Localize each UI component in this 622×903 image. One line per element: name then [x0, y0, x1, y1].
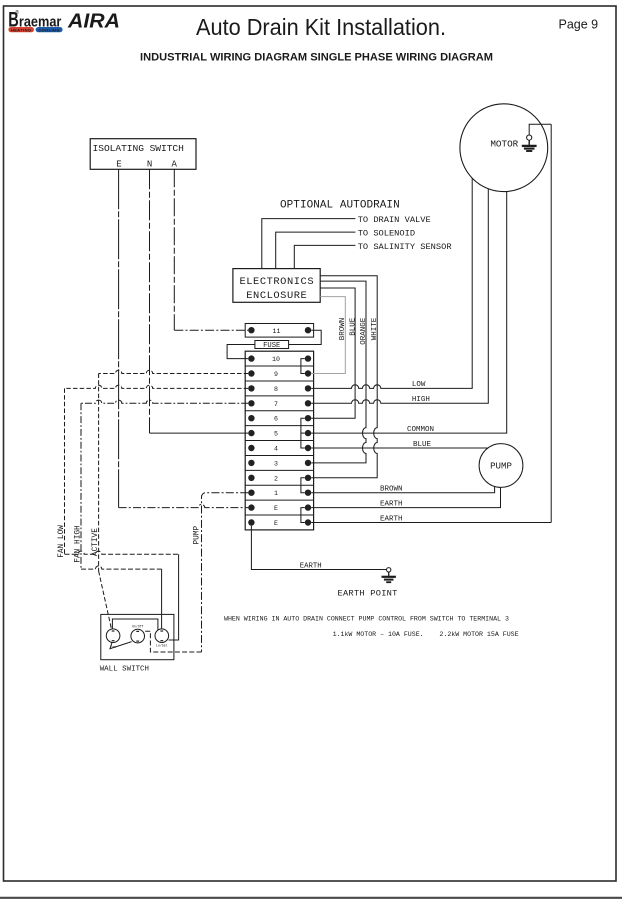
wire active diagonal into wall switch	[99, 571, 112, 629]
wire white: enclosure to terminal 2	[311, 276, 377, 478]
svg-text:WHEN WIRING IN AUTO DRAIN CONN: WHEN WIRING IN AUTO DRAIN CONNECT PUMP C…	[224, 616, 509, 623]
wire HIGH: terminal 7 to motor	[311, 189, 488, 403]
svg-text:WALL SWITCH: WALL SWITCH	[100, 666, 149, 674]
wire motor earth to trunk	[529, 124, 551, 135]
svg-text:FAN LOW: FAN LOW	[58, 525, 66, 558]
svg-text:4: 4	[274, 446, 278, 453]
wall switch S1 box	[101, 614, 174, 659]
svg-text:BROWN: BROWN	[339, 318, 347, 341]
wire BLUE: terminal 4 to pump	[311, 447, 488, 449]
svg-text:HIGH: HIGH	[412, 396, 430, 404]
wire blue: enclosure to terminal 6	[311, 288, 355, 418]
wire terminal 11 to fuse	[289, 330, 322, 344]
wire terminal 9 to brown (grey stub)	[311, 373, 345, 375]
svg-text:1: 1	[274, 490, 278, 497]
wire N horizontal to terminal 5	[150, 432, 249, 434]
svg-text:8: 8	[274, 386, 278, 393]
wire terminal 8 to fan low (dashed)	[65, 385, 249, 388]
svg-text:AIRA: AIRA	[67, 9, 120, 32]
link terminals 6-5-4	[301, 418, 305, 448]
wall switch circle left	[106, 629, 120, 643]
wall switch inner top wire	[112, 619, 157, 631]
svg-text:7: 7	[274, 401, 278, 408]
terminal row labels	[272, 356, 280, 527]
electronics enclosure U1 box	[233, 269, 320, 303]
wire active vertical	[98, 374, 100, 572]
terminal strip TB1 outline	[245, 351, 313, 530]
wire pump line into wall switch	[145, 631, 202, 652]
terminal screws right column	[305, 355, 311, 525]
link terminals 10-9	[301, 359, 305, 374]
svg-text:3: 3	[274, 460, 278, 467]
wire fan high horizontal to wall switch	[81, 566, 162, 569]
svg-text:MOTOR: MOTOR	[490, 138, 518, 149]
wire fan low vertical	[64, 388, 66, 554]
terminal 11 left screw	[248, 327, 254, 333]
wall switch circle middle	[131, 629, 145, 643]
wire orange: enclosure to terminal 3	[311, 281, 366, 463]
wire fan low horizontal to wall switch	[65, 551, 179, 554]
pump P1 circle	[479, 444, 523, 488]
svg-text:A: A	[171, 160, 177, 170]
wall switch screw ticks	[112, 630, 164, 641]
link terminals 2-1	[301, 478, 305, 493]
svg-text:ORANGE: ORANGE	[360, 317, 368, 345]
wall switch circle right	[155, 629, 169, 643]
earth point symbol	[382, 568, 396, 583]
svg-text:HEATING: HEATING	[11, 27, 32, 32]
wire fuse to terminal 10	[227, 345, 255, 359]
wire A horizontal to terminal 11	[174, 329, 248, 331]
wire fan low down leg	[169, 554, 179, 640]
svg-text:E: E	[116, 160, 121, 170]
svg-text:FAN HIGH: FAN HIGH	[74, 525, 82, 563]
svg-text:5: 5	[274, 431, 278, 438]
svg-text:ENCLOSURE: ENCLOSURE	[246, 290, 307, 302]
bottom page rule	[0, 897, 622, 899]
svg-text:EARTH: EARTH	[300, 562, 322, 570]
svg-text:PUMP: PUMP	[194, 525, 202, 544]
wire fan high vertical	[80, 403, 82, 569]
svg-text:ELECTRONICS: ELECTRONICS	[239, 276, 314, 288]
terminal 11 box	[245, 324, 313, 338]
wire A vertical from isolating switch	[173, 169, 175, 330]
svg-text:1.1kW MOTOR – 10A FUSE. 2.2: 1.1kW MOTOR – 10A FUSE. 2.2kW MOTOR 15A …	[333, 631, 519, 638]
wall switch lever wire	[110, 642, 132, 649]
svg-text:N: N	[147, 160, 152, 170]
wire BROWN: terminal 1 to pump	[311, 486, 494, 492]
svg-text:Auto Drain Kit Installation.: Auto Drain Kit Installation.	[196, 14, 446, 40]
svg-text:9: 9	[274, 371, 278, 378]
link stub terminal 5	[301, 432, 305, 434]
svg-text:TO SOLENOID: TO SOLENOID	[358, 229, 415, 239]
svg-text:Lo/Sel: Lo/Sel	[156, 644, 168, 648]
wire brown (grey) : enclosure to terminal 9	[311, 297, 345, 374]
svg-text:COOLING: COOLING	[38, 27, 59, 32]
wire to salinity sensor	[294, 245, 355, 268]
motor M1 circle	[460, 104, 548, 192]
svg-text:PUMP: PUMP	[490, 461, 512, 472]
fuse F1 box	[255, 341, 289, 349]
svg-text:ISOLATING SWITCH: ISOLATING SWITCH	[93, 143, 184, 154]
link terminals E-E	[301, 508, 305, 523]
wire N vertical from isolating switch	[149, 169, 151, 433]
svg-text:BROWN: BROWN	[380, 486, 403, 494]
svg-text:COMMON: COMMON	[407, 426, 434, 434]
isolating switch SW1 box	[90, 139, 196, 170]
svg-text:TO SALINITY SENSOR: TO SALINITY SENSOR	[358, 242, 452, 252]
svg-text:EARTH POINT: EARTH POINT	[338, 589, 398, 599]
wire EARTH: terminal E to trunk	[311, 522, 551, 524]
svg-text:OPTIONAL AUTODRAIN: OPTIONAL AUTODRAIN	[280, 199, 400, 211]
wire to solenoid	[276, 232, 356, 269]
terminal 11 right screw	[305, 327, 311, 333]
wire E horizontal to terminal E (hops pump wire)	[119, 504, 249, 507]
svg-text:6: 6	[274, 416, 278, 423]
svg-text:WHITE: WHITE	[371, 317, 379, 340]
wire terminal E2 to earth point	[251, 526, 386, 570]
wire LOW: terminal 8 to motor	[311, 178, 472, 388]
svg-text:BLUE: BLUE	[349, 317, 357, 336]
wire terminal 9 to active (dashed)	[99, 370, 249, 373]
wire terminal 7 to fan high (dash-dot)	[81, 400, 248, 403]
wire E vertical from isolating switch	[118, 169, 120, 507]
svg-text:TO DRAIN VALVE: TO DRAIN VALVE	[358, 215, 431, 225]
wire fan high down leg	[161, 569, 163, 629]
svg-text:E: E	[274, 505, 278, 512]
wire to drain valve	[262, 219, 356, 269]
svg-text:2: 2	[274, 475, 278, 482]
terminal screws left column	[248, 355, 254, 525]
electronics enclosure label	[239, 276, 314, 302]
svg-text:FUSE: FUSE	[263, 342, 280, 350]
wall switch tiny text	[110, 624, 167, 649]
motor earth symbol	[522, 135, 537, 151]
svg-text:On/Off: On/Off	[132, 624, 144, 628]
svg-text:INDUSTRIAL WIRING DIAGRAM SING: INDUSTRIAL WIRING DIAGRAM SINGLE PHASE W…	[140, 52, 493, 64]
svg-text:11: 11	[273, 328, 281, 335]
svg-text:EARTH: EARTH	[380, 500, 403, 508]
wire earth trunk vertical	[550, 124, 552, 522]
wire EARTH: terminal E to pump	[311, 487, 500, 507]
svg-text:Fan: Fan	[110, 645, 116, 649]
svg-text:BLUE: BLUE	[413, 441, 432, 449]
wire COMMON: terminal 5 to motor	[311, 192, 507, 434]
svg-text:Page 9: Page 9	[559, 18, 599, 32]
terminal strip row dividers	[245, 366, 313, 515]
svg-text:LOW: LOW	[412, 381, 426, 389]
svg-text:EARTH: EARTH	[380, 515, 403, 523]
svg-text:E: E	[274, 520, 278, 527]
Braemar logo	[8, 8, 62, 33]
wire terminal 1 to pump switch (dash-dot)	[202, 493, 249, 652]
svg-text:10: 10	[272, 356, 280, 363]
